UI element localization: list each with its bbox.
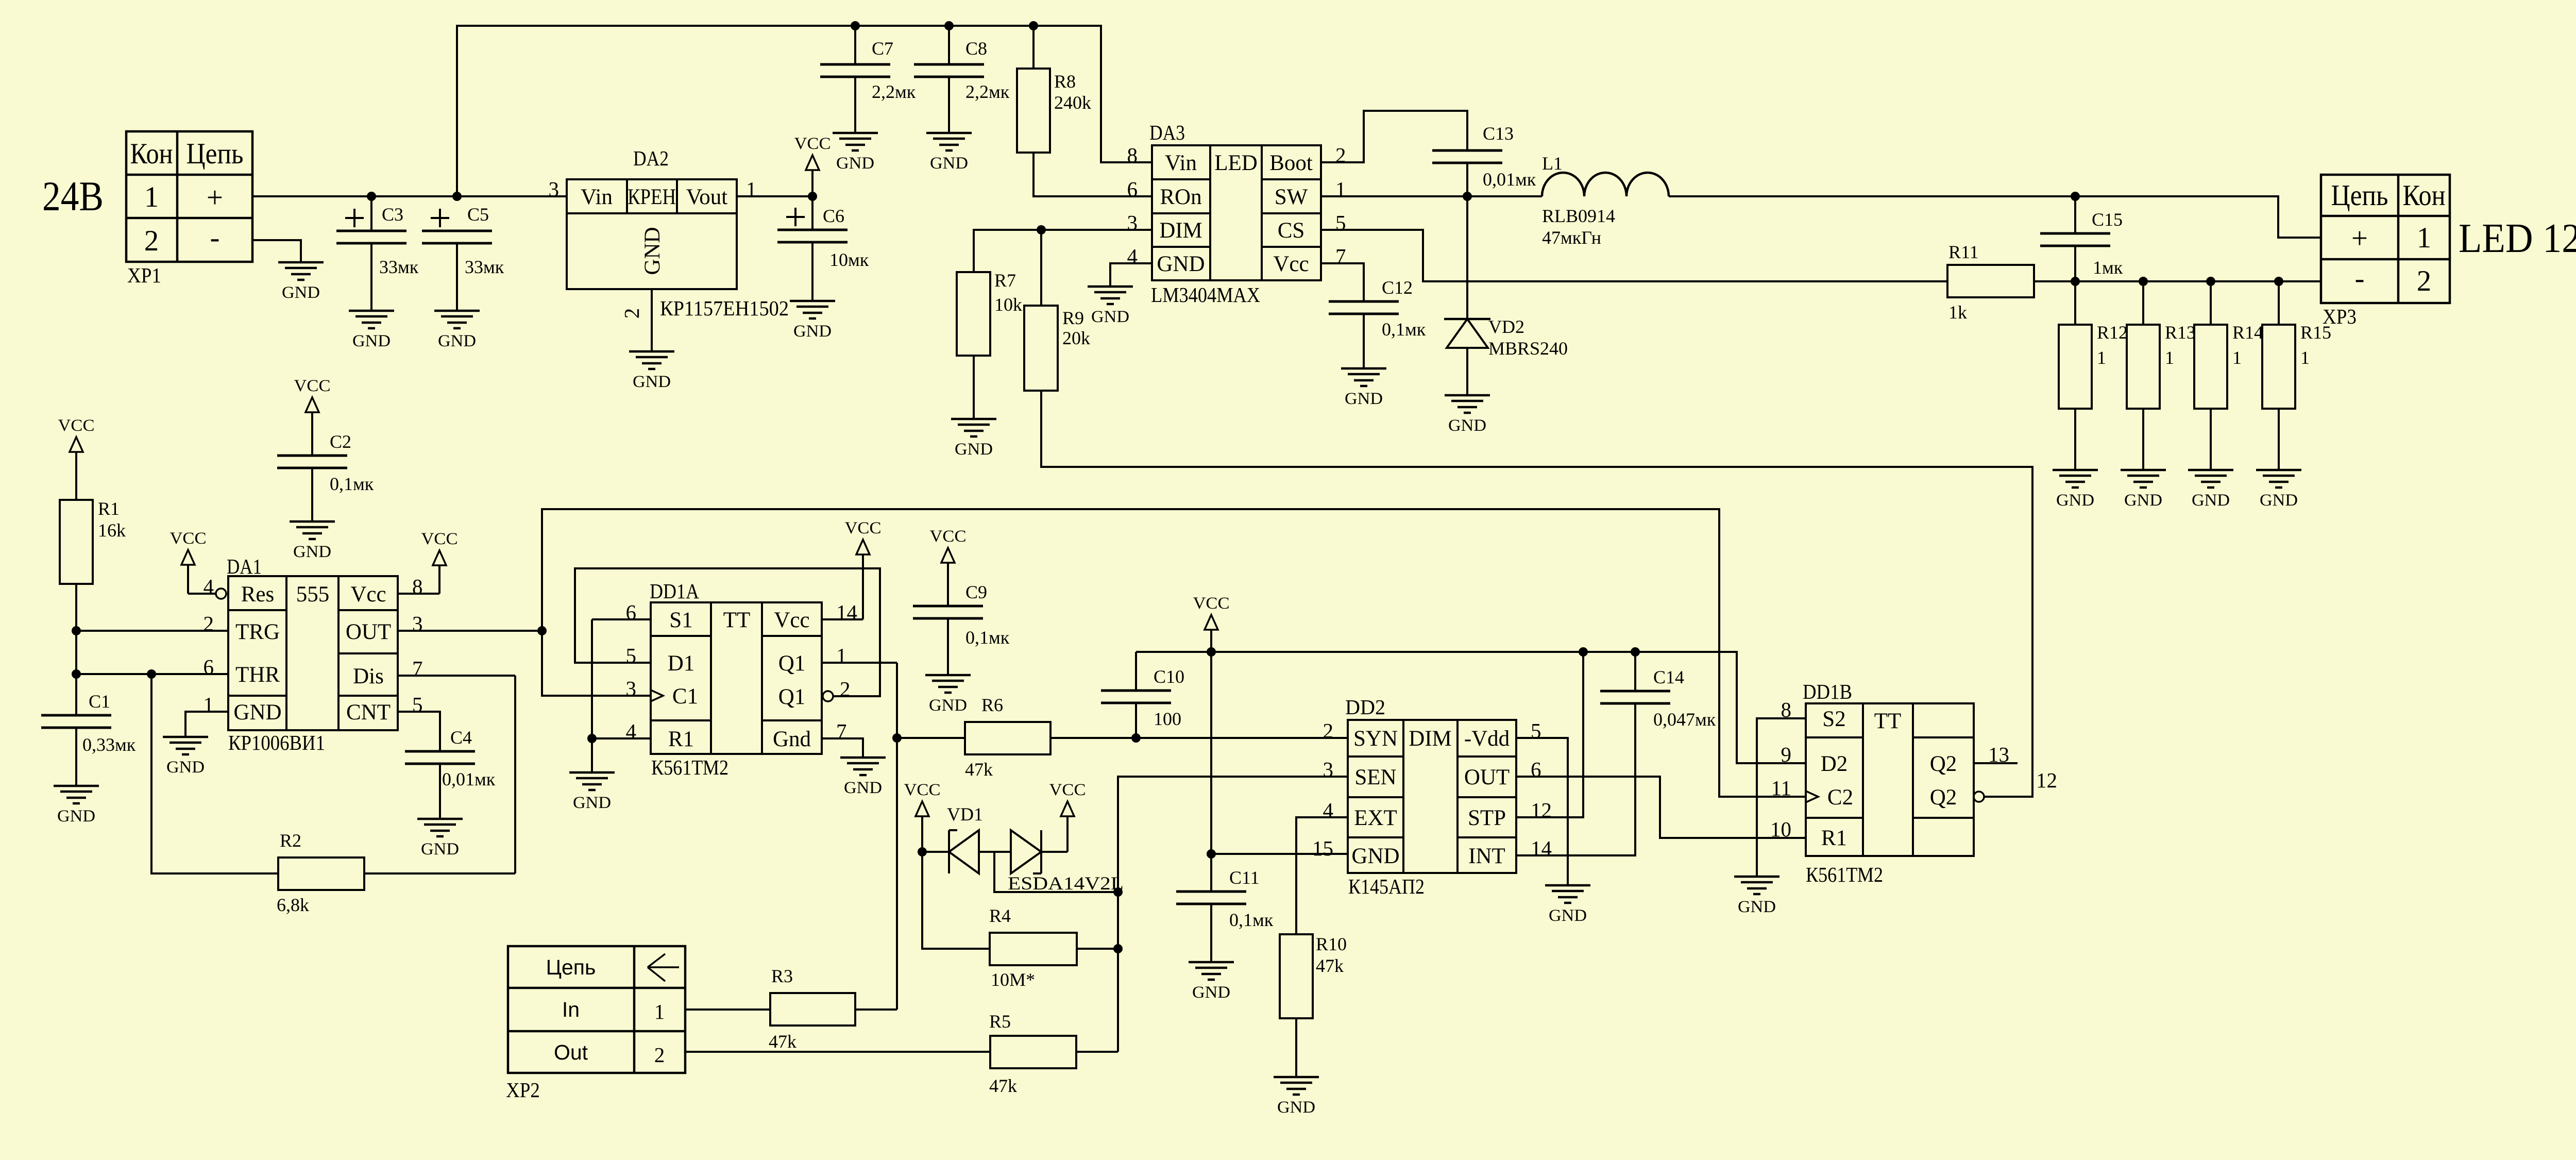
svg-text:R3: R3	[771, 966, 793, 986]
ground at R14	[2188, 470, 2233, 510]
wire DA2 Vout to VCC node	[737, 195, 812, 197]
wire OUT pin3	[398, 630, 542, 632]
capacitor C6	[777, 196, 869, 301]
svg-text:GND: GND	[1351, 844, 1399, 868]
svg-text:CS: CS	[1278, 218, 1305, 243]
svg-text:Vcc: Vcc	[1273, 252, 1309, 276]
svg-text:C11: C11	[1229, 867, 1260, 888]
ground at C7	[833, 133, 878, 173]
svg-text:C1: C1	[672, 684, 698, 709]
svg-text:12: 12	[1531, 798, 1552, 822]
svg-text:C5: C5	[467, 204, 489, 225]
wire R11 to XP3 minus	[2034, 280, 2321, 282]
node junction R6 tap	[892, 733, 902, 743]
svg-text:5: 5	[626, 644, 637, 667]
svg-text:0,1мк: 0,1мк	[330, 474, 374, 494]
power VCC at VD1 left	[904, 781, 941, 852]
svg-text:GND: GND	[233, 700, 281, 725]
svg-text:XP2: XP2	[506, 1078, 540, 1102]
resistor R1	[60, 498, 126, 584]
svg-text:2: 2	[2417, 265, 2432, 297]
ground at C6	[790, 301, 835, 341]
svg-text:XP3: XP3	[2323, 305, 2357, 328]
connector XP3	[2321, 175, 2450, 328]
svg-text:4: 4	[626, 719, 637, 743]
node junction R9 on DIM	[1037, 225, 1046, 234]
svg-text:R8: R8	[1054, 71, 1076, 92]
ground at DA3	[1088, 287, 1133, 326]
svg-text:Vin: Vin	[581, 185, 613, 209]
svg-text:К561ТМ2: К561ТМ2	[651, 755, 728, 779]
ground at DD1A pin7	[840, 758, 886, 797]
svg-text:D1: D1	[668, 651, 695, 676]
node junction R14	[2206, 277, 2215, 286]
svg-text:6: 6	[1127, 177, 1138, 201]
diode pair VD1 ESDA14V2L	[922, 804, 1124, 894]
wire 24V riser and top bus to DA3 Vin	[457, 26, 1152, 196]
resistor R10	[1280, 934, 1347, 1077]
wire S2 pin8 to ground	[1757, 718, 1806, 877]
wire R9 bottom to DD1B pin12	[1041, 391, 2032, 797]
node junction C15/R12	[2071, 277, 2080, 286]
node VCC output junction	[808, 192, 817, 201]
svg-text:S2: S2	[1822, 707, 1845, 731]
svg-text:-: -	[210, 222, 220, 254]
svg-text:0,01мк: 0,01мк	[442, 769, 496, 789]
svg-text:10k: 10k	[994, 294, 1022, 315]
pin 4 Res circle and VCC	[170, 529, 227, 599]
svg-text:LED 12В: LED 12В	[2459, 216, 2576, 261]
wire XP1 pin1 to DA2 Vin (24V rail)	[252, 195, 567, 197]
wire DA3 GND pin4 to ground	[1110, 263, 1152, 287]
ground at DD2 -Vdd	[1545, 885, 1590, 925]
svg-text:6,8k: 6,8k	[277, 895, 309, 915]
wire S1 pin6 and R1 pin4 to ground	[592, 619, 651, 772]
svg-text:-: -	[2355, 262, 2365, 295]
svg-text:C8: C8	[965, 38, 987, 59]
pin 12 inversion circle	[1974, 792, 1984, 802]
capacitor C12	[1329, 277, 1426, 368]
ground at C8	[926, 133, 972, 173]
svg-text:5: 5	[1531, 719, 1541, 743]
svg-text:1: 1	[746, 177, 757, 201]
svg-text:CNT: CNT	[346, 700, 391, 725]
ground at DD1B S2	[1734, 877, 1780, 916]
svg-text:3: 3	[626, 677, 637, 700]
svg-text:MBRS240: MBRS240	[1488, 338, 1568, 359]
svg-text:Boot: Boot	[1269, 151, 1313, 175]
svg-text:VD1: VD1	[947, 804, 983, 825]
resistor R2	[151, 674, 515, 915]
svg-text:Vcc: Vcc	[774, 608, 809, 632]
svg-text:1: 1	[2300, 347, 2310, 368]
svg-text:LM3404MAX: LM3404MAX	[1151, 283, 1260, 307]
wire Vcc pin7 to C12	[1321, 263, 1364, 301]
svg-text:100: 100	[1154, 709, 1181, 729]
svg-text:0,047мк: 0,047мк	[1653, 709, 1716, 730]
resistor R12	[2059, 281, 2128, 470]
node junction C13/VD2 on SW	[1463, 192, 1472, 201]
wire -Vdd pin5 to ground	[1516, 738, 1568, 885]
svg-text:7: 7	[1335, 244, 1346, 268]
svg-text:SEN: SEN	[1354, 765, 1396, 789]
svg-text:EXT: EXT	[1354, 806, 1397, 830]
svg-text:2: 2	[1323, 719, 1334, 743]
svg-text:Цепь: Цепь	[2331, 179, 2388, 212]
ground at R12	[2053, 470, 2098, 510]
resistor R4	[922, 852, 1118, 990]
power VCC at VD1 right	[1049, 781, 1086, 852]
svg-text:К561ТМ2: К561ТМ2	[1806, 863, 1883, 886]
resistor R5	[685, 1011, 1118, 1096]
svg-text:Vout: Vout	[686, 185, 728, 209]
svg-text:-Vdd: -Vdd	[1464, 727, 1510, 751]
wire SEN riser to DD2 pin3	[1118, 777, 1348, 1052]
node junction TRG tap	[72, 626, 81, 635]
wire OUT pin6 to DD1B R1 pin10	[1516, 777, 1806, 838]
resistor R15	[2262, 281, 2331, 470]
svg-text:2: 2	[144, 225, 159, 257]
wire VCC drop to pin15 and C11	[1211, 652, 1348, 892]
svg-text:Q2: Q2	[1930, 785, 1957, 810]
svg-text:DIM: DIM	[1409, 727, 1452, 751]
svg-text:6: 6	[1531, 758, 1541, 781]
node junction R15	[2274, 277, 2283, 286]
ground at C1	[54, 786, 99, 826]
ground at C11	[1189, 962, 1234, 1002]
svg-text:C6: C6	[823, 206, 844, 226]
svg-text:2: 2	[840, 677, 851, 701]
resistor R7	[957, 270, 1022, 419]
capacitor C1	[41, 691, 136, 786]
svg-text:R7: R7	[994, 270, 1016, 291]
node junction THR tap	[72, 669, 81, 679]
svg-text:0,33мк: 0,33мк	[82, 734, 136, 755]
ground at VD2	[1445, 395, 1490, 435]
wire R1 to C1 with taps	[75, 584, 77, 715]
svg-text:10М*: 10М*	[991, 969, 1035, 990]
node junction C10 bottom	[1131, 733, 1141, 743]
svg-text:R13: R13	[2165, 322, 2196, 343]
wire SW pin1 to L1	[1321, 195, 1542, 197]
svg-text:33мк: 33мк	[379, 257, 419, 277]
svg-text:TT: TT	[1874, 709, 1902, 733]
connector XP1	[126, 131, 252, 287]
svg-text:+: +	[2351, 222, 2368, 255]
IC DD1A К561ТМ2 flip-flop	[650, 579, 822, 779]
svg-text:4: 4	[1323, 798, 1334, 822]
svg-text:240k: 240k	[1054, 92, 1091, 113]
svg-text:ROn: ROn	[1160, 185, 1201, 209]
ground at DA1	[163, 737, 208, 777]
svg-text:STP: STP	[1468, 806, 1506, 830]
svg-text:Кон: Кон	[2403, 179, 2446, 212]
power VCC at C9	[930, 527, 967, 606]
svg-text:1: 1	[2165, 347, 2174, 368]
svg-text:GND: GND	[1157, 252, 1205, 276]
regulator DA2 КР1157ЕН1502	[567, 146, 789, 320]
svg-text:КРЕН: КРЕН	[628, 185, 676, 209]
wire CNT pin5 to C4	[398, 712, 440, 751]
svg-text:C3: C3	[382, 204, 403, 225]
svg-text:47k: 47k	[1316, 955, 1344, 976]
svg-text:R1: R1	[668, 727, 694, 751]
wire DD1A Gnd pin7 to ground	[822, 738, 863, 758]
ground at XP1	[278, 262, 324, 302]
capacitor C11	[1176, 867, 1274, 962]
connector XP2	[506, 946, 685, 1102]
resistor R8	[1017, 26, 1152, 196]
svg-text:R11: R11	[1948, 242, 1979, 262]
svg-text:Цепь: Цепь	[546, 955, 596, 979]
svg-text:C1: C1	[89, 691, 110, 712]
IC DA1 555 timer КР1006ВИ1	[227, 554, 398, 754]
ground at C3	[349, 311, 394, 350]
svg-text:7: 7	[412, 657, 423, 680]
svg-text:1: 1	[2232, 347, 2242, 368]
svg-text:5: 5	[412, 693, 423, 716]
svg-text:7: 7	[836, 719, 847, 743]
svg-text:9: 9	[1781, 743, 1792, 766]
svg-text:47k: 47k	[965, 759, 993, 780]
wire TRG pin2	[76, 630, 228, 632]
svg-text:R6: R6	[981, 695, 1003, 715]
svg-text:0,1мк: 0,1мк	[1382, 319, 1426, 340]
svg-text:2,2мк: 2,2мк	[965, 81, 1010, 102]
svg-text:2: 2	[204, 612, 214, 635]
svg-text:10: 10	[1770, 817, 1791, 841]
svg-text:1мк: 1мк	[2093, 257, 2123, 278]
ground at DA2	[629, 351, 674, 391]
svg-text:4: 4	[204, 575, 214, 598]
svg-text:33мк: 33мк	[465, 257, 504, 277]
ground at C4	[417, 819, 463, 859]
resistor R6	[897, 695, 1050, 780]
node junction S1/R1	[587, 734, 597, 743]
capacitor C2	[277, 431, 374, 522]
wire DD1A Vcc pin14 to VCC	[822, 519, 882, 619]
svg-text:1: 1	[144, 181, 159, 213]
wire L1 to XP3 plus	[1669, 196, 2321, 238]
svg-text:LED: LED	[1214, 151, 1258, 175]
svg-text:C10: C10	[1154, 666, 1184, 687]
node junction C7 on bus	[851, 21, 860, 30]
ground at DD1A S1 R1	[569, 772, 615, 812]
ground at R10	[1274, 1077, 1319, 1117]
svg-text:Out: Out	[554, 1040, 588, 1064]
ground at C2	[290, 522, 335, 561]
svg-text:TT: TT	[723, 608, 751, 632]
wire OUT net to DD1A C1 and DD1B C2	[542, 509, 1806, 797]
power VCC at DA2 output	[794, 135, 831, 196]
svg-text:INT: INT	[1468, 844, 1505, 868]
node junction VCC arrow	[1207, 647, 1216, 657]
svg-text:R1: R1	[1821, 826, 1847, 850]
svg-text:OUT: OUT	[346, 620, 391, 644]
svg-text:DD1B: DD1B	[1803, 680, 1852, 703]
svg-text:Q1: Q1	[778, 651, 806, 676]
resistor R3	[685, 966, 897, 1052]
svg-text:SW: SW	[1275, 185, 1308, 209]
svg-text:C2: C2	[330, 431, 351, 452]
svg-text:R10: R10	[1316, 934, 1347, 954]
capacitor C13	[1432, 123, 1536, 196]
ground at R7	[951, 419, 996, 459]
svg-text:DIM: DIM	[1159, 218, 1202, 243]
wire DIM net R7 R9	[974, 230, 1152, 306]
wire VD1 center tap to SEN riser	[994, 852, 1118, 892]
svg-text:1: 1	[1335, 177, 1346, 201]
IC DA3 LM3404MAX	[1149, 121, 1321, 307]
svg-text:8: 8	[412, 575, 423, 598]
wire R6 to DD2 SYN	[1050, 737, 1348, 739]
svg-text:+: +	[207, 181, 223, 214]
svg-text:1: 1	[836, 644, 847, 667]
svg-text:5: 5	[1335, 211, 1346, 234]
node junction C3 on 24V rail	[367, 192, 376, 201]
svg-text:Кон: Кон	[130, 138, 173, 170]
wire INT pin14 to C14	[1516, 703, 1635, 855]
svg-text:S1: S1	[669, 608, 692, 632]
node junction C14 top	[1631, 647, 1640, 657]
svg-text:R9: R9	[1062, 308, 1084, 328]
node junction C5/riser on 24V rail	[452, 192, 462, 201]
svg-text:0,1мк: 0,1мк	[1229, 910, 1274, 930]
svg-text:C4: C4	[450, 727, 472, 748]
capacitor C8	[914, 26, 1010, 133]
capacitor C7	[820, 26, 916, 133]
svg-text:3: 3	[549, 177, 560, 201]
svg-text:C9: C9	[965, 582, 987, 602]
svg-text:Vcc: Vcc	[350, 582, 386, 607]
svg-text:L1: L1	[1542, 153, 1563, 174]
capacitor C15	[2040, 196, 2123, 281]
svg-text:20k: 20k	[1062, 328, 1090, 348]
svg-text:КР1157ЕН1502: КР1157ЕН1502	[660, 296, 789, 320]
svg-text:R14: R14	[2232, 322, 2263, 343]
node junction R4 right	[1113, 944, 1123, 953]
svg-text:2: 2	[1335, 143, 1346, 167]
node junction R2 tap on THR	[147, 669, 156, 679]
svg-text:1: 1	[2417, 222, 2432, 254]
wire CS pin5 to R11	[1321, 230, 1947, 281]
svg-text:C2: C2	[1827, 785, 1853, 810]
node junction pin15/C11	[1207, 849, 1216, 859]
svg-text:C14: C14	[1653, 667, 1684, 687]
svg-text:DA3: DA3	[1149, 121, 1185, 144]
svg-text:2: 2	[654, 1043, 665, 1067]
capacitor C5	[422, 204, 504, 311]
ground at R13	[2121, 470, 2166, 510]
capacitor C3	[336, 196, 419, 311]
wire XP1 pin2 to ground	[252, 240, 301, 262]
svg-text:GND: GND	[640, 227, 665, 275]
svg-text:3: 3	[1127, 211, 1138, 234]
svg-text:КР1006ВИ1: КР1006ВИ1	[228, 731, 325, 754]
ground at C5	[434, 311, 480, 350]
wire DA2 pin2 to ground	[651, 289, 653, 351]
svg-text:RLB0914: RLB0914	[1542, 206, 1615, 226]
node junction C8 on bus	[944, 21, 954, 30]
svg-text:14: 14	[1531, 836, 1552, 860]
svg-text:R4: R4	[989, 905, 1011, 926]
svg-text:8: 8	[1127, 143, 1138, 167]
svg-text:1: 1	[2097, 347, 2106, 368]
node junction ESDA tap	[1113, 887, 1123, 897]
wire D1 pin5 feedback loop from Q1bar pin2	[575, 568, 880, 696]
svg-text:DA2: DA2	[633, 146, 669, 170]
IC DD1B К561ТМ2 flip-flop	[1803, 680, 1974, 886]
svg-text:R2: R2	[280, 830, 301, 851]
wire Boot pin2 to C13	[1321, 111, 1467, 162]
resistor R9	[1024, 306, 1090, 391]
svg-text:Q1: Q1	[778, 685, 806, 709]
svg-text:In: In	[562, 998, 580, 1021]
wire DA1 Vcc pin8 to VCC	[398, 530, 458, 594]
svg-text:0,1мк: 0,1мк	[965, 627, 1010, 648]
node junction STP riser	[1579, 647, 1588, 657]
svg-text:Vin: Vin	[1165, 151, 1197, 175]
svg-text:6: 6	[204, 655, 214, 679]
svg-text:11: 11	[1771, 776, 1791, 800]
svg-text:1: 1	[204, 693, 214, 716]
wire VCC rail to DD2 D2 pin9	[1136, 652, 1806, 763]
resistor R11	[1947, 242, 2034, 323]
resistor R14	[2194, 281, 2263, 470]
wire THR pin6	[76, 673, 228, 675]
svg-text:Gnd: Gnd	[773, 727, 811, 751]
svg-text:DD2: DD2	[1345, 695, 1385, 719]
wire EXT pin4 to R10	[1296, 817, 1348, 934]
svg-text:3: 3	[412, 612, 423, 635]
svg-text:16k: 16k	[98, 520, 126, 541]
svg-text:47k: 47k	[989, 1075, 1017, 1096]
svg-text:К145АП2: К145АП2	[1348, 875, 1425, 898]
svg-text:6: 6	[626, 600, 637, 624]
svg-text:D2: D2	[1821, 752, 1848, 776]
svg-text:C12: C12	[1382, 277, 1413, 298]
svg-text:OUT: OUT	[1464, 765, 1510, 789]
svg-text:R12: R12	[2097, 322, 2128, 343]
capacitor C14	[1600, 652, 1716, 730]
node junction R8 on bus	[1029, 21, 1038, 30]
diode VD2 MBRS240	[1444, 196, 1568, 395]
svg-text:TRG: TRG	[235, 620, 280, 644]
svg-text:1: 1	[654, 1000, 665, 1023]
svg-text:2,2мк: 2,2мк	[872, 81, 916, 102]
capacitor C10	[1101, 652, 1184, 738]
svg-text:Dis: Dis	[353, 664, 384, 688]
pin 2 inversion circle	[823, 691, 833, 701]
power VCC at C2	[294, 377, 331, 456]
svg-text:C13: C13	[1483, 123, 1514, 144]
svg-text:15: 15	[1312, 836, 1333, 860]
wire Dis pin7	[398, 676, 515, 873]
svg-text:R1: R1	[98, 498, 120, 519]
svg-text:10мк: 10мк	[829, 249, 869, 270]
resistor R13	[2127, 281, 2196, 470]
svg-text:0,01мк: 0,01мк	[1483, 169, 1536, 190]
svg-text:47мкГн: 47мкГн	[1542, 227, 1601, 248]
wire DA1 GND pin1 to ground	[185, 712, 228, 737]
svg-text:VD2: VD2	[1488, 316, 1524, 337]
ground at C9	[925, 675, 971, 715]
node junction R13	[2139, 277, 2148, 286]
svg-text:DA1: DA1	[227, 554, 262, 578]
node junction OUT riser	[537, 626, 547, 635]
node junction VD1 left	[918, 847, 927, 856]
svg-text:Цепь: Цепь	[187, 138, 244, 170]
